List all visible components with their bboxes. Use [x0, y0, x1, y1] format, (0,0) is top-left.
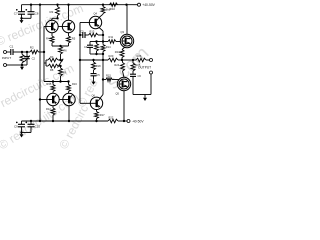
junction dot R8 top: [102, 3, 104, 5]
junction dot Q8 emitter bottom: [68, 120, 70, 122]
junction dot box bottom right: [102, 53, 104, 55]
wire Q4 emitter down: [102, 31, 104, 35]
svg-text:+40-50V: +40-50V: [142, 3, 155, 7]
resistor R18: [93, 60, 95, 62]
svg-text:R3: R3: [50, 10, 54, 14]
svg-text:R23: R23: [115, 50, 120, 54]
resistor R2: [30, 50, 39, 54]
junction dot R11 node: [102, 40, 104, 42]
resistor R13: [89, 33, 99, 37]
svg-text:C6: C6: [138, 74, 142, 78]
terminal output: [150, 59, 153, 62]
wire R2 to input node: [39, 51, 45, 53]
junction dot Q5 base node: [102, 78, 104, 80]
capacitor C4: [89, 42, 91, 46]
wire Q7-Q8 link: [59, 99, 63, 101]
transistor Q4: [89, 16, 101, 28]
resistor R15c: [103, 79, 106, 81]
svg-text:INPUT: INPUT: [2, 56, 11, 60]
junction dot C8 top: [30, 3, 32, 5]
junction dot Q3 collector rail: [125, 3, 127, 5]
ground top-left: [21, 18, 23, 20]
junction dot bus left: [52, 80, 54, 82]
ground C5: [93, 80, 95, 82]
wire driver base from feedback: [40, 99, 47, 101]
junction dot Q2 emitter rail: [67, 3, 69, 5]
resistor R14b: [96, 42, 98, 44]
junction dot feedback bottom: [39, 120, 41, 122]
wire input node to Q1 base: [43, 27, 45, 53]
junction dot input node: [43, 51, 45, 53]
svg-text:R4: R4: [46, 37, 50, 41]
svg-text:6k8: 6k8: [106, 8, 111, 12]
junction dot R24 top: [121, 59, 123, 61]
wire Q3 collector: [126, 5, 128, 35]
terminal -40-50V: [127, 120, 130, 123]
wire x103 upper: [102, 35, 104, 42]
capacitor C6: [130, 73, 136, 75]
svg-text:Q4: Q4: [94, 11, 98, 15]
wire feedback line: [39, 5, 41, 121]
wire x103 mid: [102, 60, 104, 80]
wire R4-R5 join: [52, 45, 69, 47]
svg-text:R17: R17: [100, 113, 105, 117]
svg-text:R14: R14: [106, 45, 111, 49]
wire C2 tap to R2: [27, 51, 30, 53]
junction dot zobel branch: [92, 59, 94, 61]
svg-text:R25: R25: [136, 63, 141, 67]
transistor Q6: [90, 97, 102, 109]
wire Q3 emitter to R23: [122, 47, 125, 50]
resistor R16: [68, 82, 70, 85]
wire Q4 base: [80, 22, 89, 24]
wire box bottom: [90, 53, 103, 55]
resistor R9: [60, 66, 62, 68]
resistor R1: [21, 52, 23, 54]
wire ladder bracket: [45, 60, 47, 66]
resistor R20: [108, 58, 118, 62]
ground zobel: [144, 96, 146, 98]
resistor R4: [51, 33, 53, 36]
svg-text:C10: C10: [35, 124, 41, 128]
resistor R15: [52, 82, 54, 85]
junction dot R12 bottom: [52, 120, 54, 122]
plus mark C8: [26, 9, 28, 11]
wire VAS base to Q6 base vertical: [79, 23, 81, 104]
wire zobel to ground: [133, 94, 145, 96]
terminal output return: [150, 71, 153, 74]
wire Q8 emitter down: [68, 106, 70, 121]
resistor R3: [57, 5, 59, 7]
junction dot box top mid: [95, 40, 97, 42]
wire Q6 base: [80, 102, 91, 104]
ground input: [21, 65, 23, 67]
plus mark C10: [26, 121, 28, 123]
junction dot feedback at driver base: [39, 98, 41, 100]
svg-text:R5: R5: [72, 37, 76, 41]
resistor R23: [120, 50, 124, 58]
svg-text:R15: R15: [106, 74, 111, 78]
resistor R12: [52, 106, 54, 108]
svg-text:R8: R8: [50, 68, 54, 72]
svg-text:Q5: Q5: [116, 92, 120, 96]
svg-text:R6: R6: [63, 49, 67, 53]
resistor R17: [96, 110, 98, 112]
resistor R8b: [102, 5, 104, 7]
capacitor C9: [21, 121, 23, 124]
transistor Q8: [63, 93, 75, 105]
plus mark C9: [16, 121, 18, 123]
junction dot R8 node: [59, 65, 61, 67]
svg-text:R9: R9: [63, 71, 67, 75]
transistor Q7: [47, 93, 59, 105]
svg-text:R20: R20: [109, 54, 114, 58]
junction dot C3 line right: [102, 34, 104, 36]
resistor R6: [59, 47, 63, 55]
power transistor Q5: [117, 77, 130, 90]
watermark: [0, 1, 153, 153]
wire Q1 emitter to R3 node: [51, 18, 53, 20]
junction dot R1 tap: [21, 51, 23, 53]
capacitor C5: [91, 73, 97, 75]
svg-text:C3: C3: [80, 29, 84, 33]
svg-text:C9: C9: [14, 124, 18, 128]
junction dot Q5 emitter rail: [123, 120, 125, 122]
ground bottom-left: [21, 133, 23, 135]
junction dot R17 bottom: [95, 120, 97, 122]
junction dot bus center: [59, 80, 61, 82]
wire bottom caps join: [22, 132, 32, 134]
resistor R26: [133, 59, 136, 61]
junction dot R25 top: [132, 59, 134, 61]
terminal input signal: [4, 51, 7, 54]
svg-text:C2: C2: [32, 57, 36, 61]
svg-text:R22: R22: [109, 116, 114, 120]
resistor R22: [108, 119, 118, 123]
terminal input return: [4, 64, 7, 67]
wire rail to terminal: [124, 120, 127, 122]
wire input to C1: [7, 51, 11, 53]
junction dot x103 bus: [102, 59, 104, 61]
wire cap bottoms join: [22, 17, 32, 19]
wire lower stage bus: [44, 81, 69, 83]
svg-text:Q3: Q3: [121, 30, 125, 34]
resistor R25: [132, 60, 134, 63]
wire negative supply rail: [22, 120, 109, 122]
resistor R8: [46, 65, 48, 67]
svg-text:R13: R13: [90, 29, 95, 33]
svg-text:R15: R15: [47, 82, 52, 86]
junction dot box bottom mid: [95, 53, 97, 55]
resistor R11: [103, 41, 108, 43]
power transistor Q3: [120, 34, 133, 47]
svg-text:R7: R7: [50, 55, 54, 59]
resistor R14: [102, 42, 104, 45]
svg-text:R16: R16: [72, 82, 77, 86]
svg-text:C7: C7: [14, 12, 18, 16]
resistor R24: [122, 60, 124, 63]
wire output return: [150, 74, 152, 95]
svg-text:R26: R26: [137, 54, 142, 58]
junction dot feedback line top: [39, 3, 41, 5]
junction dot R7 node: [59, 59, 61, 61]
capacitor C10: [30, 121, 32, 124]
capacitor C1: [10, 49, 12, 55]
svg-text:R18: R18: [96, 64, 101, 68]
wire to C2 tap: [22, 51, 27, 53]
svg-text:C4: C4: [84, 45, 88, 49]
capacitor C8: [30, 5, 32, 12]
svg-text:R12: R12: [46, 107, 51, 111]
resistor R5: [68, 33, 70, 36]
transistor Q1: [46, 20, 58, 32]
svg-text:R24: R24: [114, 63, 119, 67]
resistor R10: [110, 3, 118, 7]
wire box top: [90, 41, 103, 43]
wire output bus: [80, 59, 108, 61]
wire Q2 emitter to rail: [68, 5, 70, 21]
svg-text:R11: R11: [109, 35, 114, 39]
svg-text:R10: R10: [110, 7, 116, 11]
wire Q5 emitter down: [123, 91, 125, 121]
wire positive supply rail: [22, 4, 134, 6]
capacitor C7: [21, 5, 23, 12]
junction dot C2 tap: [26, 51, 28, 53]
resistor R7: [46, 59, 48, 61]
wire C2 bottom to R1 bottom: [22, 64, 27, 66]
transistor Q2: [62, 20, 74, 32]
junction dot C10 top: [30, 120, 32, 122]
wire input node down to ladder: [43, 52, 45, 82]
junction dot bus right: [67, 80, 69, 82]
capacitor C3: [80, 34, 83, 36]
junction dot R3 top: [56, 3, 58, 5]
svg-text:C1: C1: [10, 45, 14, 49]
junction dot R3 bottom: [56, 17, 58, 19]
svg-text:R2: R2: [30, 46, 34, 50]
wire x103 to output bus: [102, 54, 104, 60]
terminal +40-50V: [133, 4, 138, 6]
wire Q1-Q2 base link: [58, 26, 62, 28]
wire bus to R25 node: [122, 59, 133, 61]
junction dot feedback at output bus: [79, 59, 81, 61]
svg-text:-40-50V: -40-50V: [132, 120, 145, 124]
plus mark C7: [16, 9, 18, 11]
junction dot C3 left: [79, 34, 81, 36]
trimmer arrow: [58, 59, 64, 68]
svg-text:C5: C5: [96, 73, 100, 77]
svg-text:C8: C8: [35, 12, 39, 16]
trimmer capacitor C2: [26, 52, 28, 57]
